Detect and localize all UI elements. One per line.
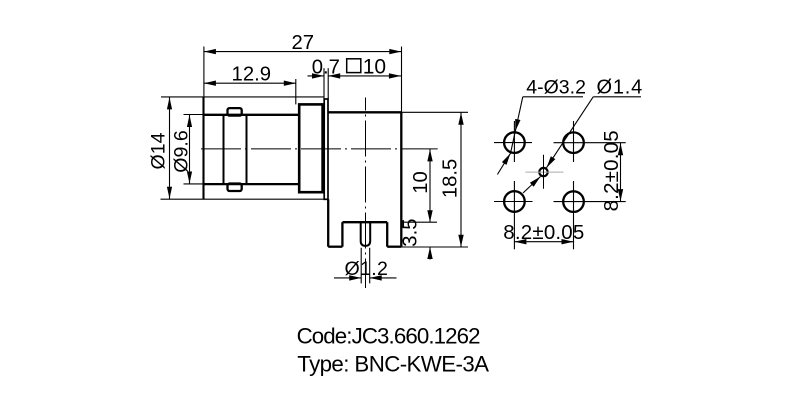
svg-text:10: 10 (410, 171, 432, 194)
svg-text:Ø14: Ø14 (148, 132, 170, 169)
svg-text:Ø9.6: Ø9.6 (170, 130, 192, 173)
svg-text:18.5: 18.5 (440, 159, 462, 198)
svg-text:8.2±0.05: 8.2±0.05 (503, 221, 584, 244)
svg-text:8.2±0.05: 8.2±0.05 (600, 130, 623, 211)
svg-text:Ø1.2: Ø1.2 (345, 258, 389, 280)
svg-text:10: 10 (363, 56, 386, 79)
svg-text:4-Ø3.2: 4-Ø3.2 (526, 77, 586, 99)
svg-text:3.5: 3.5 (400, 218, 422, 246)
svg-text:Code:JC3.660.1262: Code:JC3.660.1262 (297, 324, 481, 349)
svg-text:27: 27 (292, 32, 315, 54)
svg-text:Ø1.4: Ø1.4 (597, 77, 644, 99)
svg-text:12.9: 12.9 (232, 64, 271, 86)
svg-text:Type: BNC-KWE-3A: Type: BNC-KWE-3A (297, 351, 489, 376)
svg-text:0.7: 0.7 (312, 57, 340, 79)
